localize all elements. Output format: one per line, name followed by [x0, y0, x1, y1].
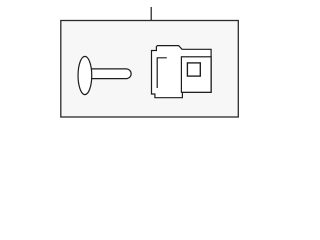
connector front face rectangle [181, 57, 211, 93]
pin head ellipse [78, 56, 92, 94]
connector inner square window [187, 63, 200, 76]
leader line [150, 7, 152, 21]
connector outer body outline [152, 46, 212, 98]
part box frame [61, 21, 239, 118]
pin shaft [89, 69, 132, 79]
connector inner L groove [157, 58, 167, 88]
